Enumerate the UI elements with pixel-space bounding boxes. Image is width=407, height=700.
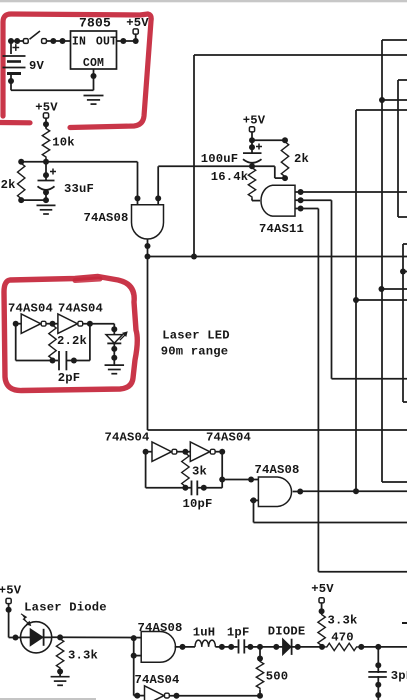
- svg-text:2k: 2k: [1, 178, 16, 192]
- inductor L1 1uH: [195, 640, 215, 647]
- battery B1 9V: [3, 56, 26, 74]
- wire branch up to inv2 out: [89, 324, 91, 361]
- wire to +5V terminal: [135, 34, 137, 41]
- wire battery- return to COM ground: [11, 89, 94, 91]
- wire pin3 to right edge: [318, 571, 407, 573]
- wire +5V down to 100uF: [251, 132, 253, 153]
- 3pF end dot: [375, 692, 381, 698]
- junction 3pF dot: [375, 644, 381, 650]
- red annotation stub bottom-left: [0, 120, 30, 126]
- node dot (+5V/2k): [249, 137, 255, 143]
- wire node A down to AND input1: [137, 162, 139, 205]
- wire node to 33uF: [45, 162, 47, 181]
- junction 3.3k/+5V dot: [319, 644, 325, 650]
- wire through photodiode: [21, 636, 52, 638]
- wire switch to 7805 IN: [47, 40, 71, 42]
- resistor 3k: [182, 452, 189, 488]
- wire inv3 out to inv4 in: [177, 451, 191, 453]
- wire feedback left down (osc2): [145, 452, 147, 488]
- diode D3 cathode bar: [291, 639, 293, 655]
- wire to switch: [11, 40, 24, 42]
- 74AS11 pin3 wire: [295, 208, 301, 210]
- svg-text:1pF: 1pF: [227, 625, 250, 639]
- inverter U4A 74AS04: [21, 314, 41, 334]
- svg-text:COM: COM: [83, 57, 104, 70]
- photodiode triangle: [30, 629, 43, 646]
- svg-text:74AS04: 74AS04: [206, 431, 251, 445]
- resistor 2k (right): [281, 140, 288, 178]
- battery - node dot: [8, 78, 14, 84]
- light arrow into photodiode: [21, 614, 30, 625]
- wire photodiode to AND U7: [52, 636, 142, 638]
- wire box top (y55): [194, 54, 407, 56]
- junction 2.2k/2pF dot: [50, 358, 56, 364]
- AND gate U7 74AS08: [141, 632, 175, 663]
- svg-text:3pF: 3pF: [391, 669, 407, 683]
- wire stub y402: [403, 401, 407, 403]
- AND gate U6 74AS08: [258, 477, 291, 507]
- wire stub y482: [382, 481, 407, 483]
- wire vertical x398: [397, 80, 399, 217]
- wire 2pF to inv2 out branch: [66, 360, 90, 362]
- inverter U8 74AS04 (clipped at bottom): [145, 686, 165, 700]
- svg-text:IN: IN: [72, 36, 86, 49]
- wire U7 input2: [134, 655, 142, 657]
- wire to inverter input: [134, 695, 145, 697]
- ground (3.3k): [51, 676, 70, 678]
- svg-text:Laser Diode: Laser Diode: [24, 601, 107, 615]
- wire inv2 out to LED: [83, 323, 115, 325]
- scan artifact: gray top edge: [0, 0, 407, 2]
- wire output branch to right edge (y430): [148, 429, 407, 431]
- junction 100uF/16.4k dot: [249, 163, 255, 169]
- wire 7805 COM down: [93, 69, 95, 90]
- resistor 3.3k (detector): [318, 613, 325, 647]
- LED ground node dot: [111, 355, 117, 361]
- switch SW1 pole: [23, 39, 28, 44]
- wire jog down: [274, 166, 276, 178]
- ground (7805 COM): [84, 95, 104, 97]
- wire pin2 right: [301, 199, 332, 201]
- inverter U5A 74AS04: [152, 442, 172, 462]
- wire inverter out to 500 bottom: [169, 695, 260, 697]
- svg-text:74AS08: 74AS08: [83, 211, 128, 225]
- laser emission arrow: [120, 332, 127, 340]
- 500 bottom dot: [257, 693, 263, 699]
- wire 1pF to diode: [244, 646, 282, 648]
- wire AND U2 output down long: [147, 239, 149, 430]
- ground (laser LED): [105, 364, 125, 366]
- clipped mark at right edge: [402, 622, 407, 624]
- 2k right top dot: [282, 137, 288, 143]
- wire stub y40: [382, 39, 407, 41]
- 2pF right dot: [71, 358, 77, 364]
- wire branch up to inv4 out: [221, 452, 223, 488]
- junction x403/y271 dot: [400, 269, 406, 275]
- wire stub y80: [398, 79, 407, 81]
- inverter U5B 74AS04: [190, 442, 210, 462]
- AND gate U3 74AS11 (3-input, mirrored): [261, 185, 295, 216]
- AND U6 input1 dot: [248, 477, 254, 483]
- wire to 2k right top: [252, 139, 285, 141]
- voltage regulator U1 7805: [71, 31, 117, 69]
- svg-text:+5V: +5V: [243, 114, 266, 128]
- wire feedback to 2pF: [16, 360, 58, 362]
- junction x356/y300 dot: [353, 297, 359, 303]
- capacitor C6 3pF: [368, 671, 387, 673]
- wire bus output to right edge: [148, 256, 407, 258]
- red annotation circle around oscillator: [4, 277, 137, 391]
- 74AS11 pin1 dot: [298, 189, 304, 195]
- svg-text:74AS04: 74AS04: [8, 302, 53, 316]
- 10pF right dot: [201, 485, 207, 491]
- node A left dot: [18, 159, 24, 165]
- dot before diode: [273, 644, 279, 650]
- junction 3.3k dot: [57, 634, 63, 640]
- resistor 10k: [42, 127, 49, 159]
- 3pF top dot: [375, 662, 381, 668]
- svg-text:3.3k: 3.3k: [68, 649, 98, 663]
- svg-text:90m range: 90m range: [161, 345, 229, 359]
- wire +5V to 10k: [45, 118, 47, 128]
- AND U2 input2 pin dot: [155, 195, 161, 201]
- node A dot under 10k: [43, 159, 49, 165]
- svg-text:OUT: OUT: [96, 36, 117, 49]
- svg-text:33uF: 33uF: [64, 182, 94, 196]
- resistor 2k (left): [18, 162, 25, 200]
- wire U6 input2: [250, 499, 258, 501]
- svg-text:+5V: +5V: [0, 584, 22, 598]
- wire battery+ to switch: [10, 41, 12, 54]
- capacitor C5 1pF: [238, 639, 240, 653]
- inverter U4B 74AS04: [58, 314, 78, 334]
- wire osc2 out to AND U6 input1: [222, 479, 258, 481]
- 74AS11 pin2 wire: [295, 199, 301, 201]
- wire +5V down: [8, 604, 10, 638]
- wire pin2 to right edge: [332, 378, 407, 380]
- wire inv4 out: [215, 451, 222, 453]
- switch SW1 throw: [42, 39, 47, 44]
- U7 output dot: [180, 644, 186, 650]
- wire pin3 right: [301, 208, 319, 210]
- wire stub y271: [403, 271, 407, 273]
- inv4 output dot: [219, 449, 225, 455]
- wire U6 output: [293, 491, 301, 493]
- junction 500 dot: [257, 644, 263, 650]
- diode D3 triangle: [283, 639, 291, 655]
- resistor 3.3k (receiver): [56, 637, 63, 669]
- wire pin2 down: [331, 200, 333, 379]
- 74AS11 pin1 wire: [295, 191, 301, 193]
- svg-text:2pF: 2pF: [58, 371, 81, 385]
- wire jog to 2k bottom: [275, 177, 285, 179]
- wire feedback left down: [15, 324, 17, 361]
- laser LED D1: [106, 335, 123, 344]
- 33uF + sign: [50, 169, 56, 175]
- inv1 input dot: [13, 321, 19, 327]
- 2k right bottom dot: [282, 175, 288, 181]
- junction U6out/x356 dot: [353, 488, 359, 494]
- U6 input2 dot: [251, 497, 257, 503]
- wire 33uF to ground node: [45, 192, 47, 200]
- wire 16.4k to gate tip: [251, 199, 253, 201]
- LED anode dot: [111, 326, 117, 332]
- wire diode to 470: [292, 646, 326, 648]
- svg-text:1uH: 1uH: [193, 625, 216, 639]
- photodiode cathode bar: [43, 629, 45, 646]
- 33uF bottom plate dot: [43, 189, 49, 195]
- AND gate U2 74AS08 (vertical): [132, 205, 164, 239]
- wire pin1 to right edge: [301, 191, 407, 193]
- wire inv1 input: [16, 323, 22, 325]
- svg-text:74AS04: 74AS04: [134, 673, 179, 687]
- wire stub y244: [403, 243, 407, 245]
- svg-text:74AS08: 74AS08: [254, 463, 299, 477]
- 74AS11 pin3 dot: [298, 206, 304, 212]
- junction x382/y100 dot: [379, 97, 385, 103]
- wire stub y217: [398, 216, 407, 218]
- switch blade: [30, 31, 41, 39]
- capacitor C3 2pF: [58, 351, 60, 370]
- wire to photodiode: [9, 637, 21, 639]
- receiver supply dot: [6, 607, 12, 613]
- capacitor C1 33uF (polarized): [38, 180, 55, 182]
- junction osc2 output dot: [219, 477, 225, 483]
- wire 1uH to 1pF: [215, 646, 237, 648]
- svg-text:74AS11: 74AS11: [259, 222, 304, 236]
- inv2 output dot: [87, 321, 93, 327]
- scan artifact: gray bottom-left edge: [0, 698, 96, 700]
- wire inv1 out to inv2 in: [46, 323, 58, 325]
- LED cathode bar: [107, 342, 121, 344]
- svg-text:3.3k: 3.3k: [327, 613, 357, 627]
- 500 top dot: [257, 656, 263, 662]
- COM node dot: [91, 73, 97, 79]
- resistor 500: [256, 660, 263, 690]
- 3pF bottom dot: [375, 682, 381, 688]
- svg-text:DIODE: DIODE: [268, 625, 306, 639]
- ground (33uF/2k): [37, 204, 56, 206]
- svg-text:74AS04: 74AS04: [58, 302, 103, 316]
- wire box left (x194): [193, 55, 195, 257]
- battery + sign: [12, 44, 19, 51]
- wire 470 to right edge: [358, 646, 407, 648]
- U6 output dot: [297, 489, 303, 495]
- wire 100uF node horizontal: [158, 165, 274, 167]
- red annotation circle around power supply: [3, 14, 151, 128]
- wire input2 to right edge: [254, 522, 407, 524]
- capacitor C4 10pF: [191, 481, 193, 496]
- wire battery- down: [10, 74, 12, 91]
- wire inv3 input: [146, 451, 152, 453]
- 74AS11 pin2 dot: [298, 197, 304, 203]
- junction inv1out/2.2k dot: [50, 321, 56, 327]
- 100uF + sign: [256, 144, 262, 150]
- photodiode anode dot: [13, 635, 19, 641]
- AND U2 input1 pin dot: [135, 195, 141, 201]
- dot before 1pF: [228, 644, 234, 650]
- +5V terminal (10k): [43, 113, 48, 118]
- photodiode D2 (laser receiver): [20, 622, 51, 653]
- U7 input2 dot: [131, 653, 137, 659]
- junction inv3out/3k dot: [182, 449, 188, 455]
- wire stub y289: [382, 288, 407, 290]
- capacitor C2 100uF (polarized): [243, 152, 262, 154]
- resistor 470: [325, 643, 358, 650]
- wire AND input2 down: [157, 166, 159, 204]
- svg-text:9V: 9V: [29, 59, 45, 73]
- +5V terminal (receiver): [6, 598, 11, 603]
- svg-text:7805: 7805: [79, 16, 111, 31]
- 3.3k bottom dot: [57, 669, 63, 675]
- resistor 16.4k: [248, 166, 255, 198]
- svg-text:500: 500: [266, 670, 289, 684]
- svg-text:10pF: 10pF: [182, 497, 212, 511]
- wire vertical x382: [381, 40, 383, 482]
- wire stub y110: [356, 109, 407, 111]
- dot below +5V terminal: [43, 121, 49, 127]
- junction box/bus dot: [191, 254, 197, 260]
- wire 7805 OUT to +5V: [117, 40, 139, 42]
- svg-text:+5V: +5V: [311, 582, 334, 596]
- wire input2 down: [253, 500, 255, 522]
- inv3 input dot: [143, 449, 149, 455]
- svg-text:+5V: +5V: [126, 16, 149, 30]
- wire vertical x356: [355, 110, 357, 491]
- wire 2k bottom to ground node: [21, 199, 46, 201]
- wire 10k to node: [45, 159, 47, 162]
- +5V terminal (top): [133, 29, 138, 34]
- inverter output dot: [174, 693, 180, 699]
- inverter input dot: [134, 693, 140, 699]
- svg-text:100uF: 100uF: [201, 152, 239, 166]
- wire input tie-down vertical: [133, 638, 135, 696]
- wire feedback to 10pF: [146, 487, 191, 489]
- wire node A horizontal: [21, 161, 137, 163]
- svg-text:16.4k: 16.4k: [211, 170, 249, 184]
- wire 3pF branch down: [377, 647, 379, 700]
- U7 input1 dot: [131, 635, 137, 641]
- svg-text:Laser LED: Laser LED: [162, 329, 230, 343]
- +5V terminal (detector): [319, 598, 324, 603]
- wire U6 output to right edge: [300, 490, 407, 492]
- wire down to laser LED: [113, 324, 115, 335]
- dot after diode: [295, 644, 301, 650]
- svg-text:2.2k: 2.2k: [57, 334, 87, 348]
- dot after 470: [358, 644, 364, 650]
- resistor 2.2k: [49, 324, 56, 361]
- red annotation overdraw stroke: [75, 279, 100, 281]
- wire stub y100: [382, 99, 407, 101]
- 100uF + dot: [249, 144, 255, 150]
- +5V terminal (100uF): [249, 127, 254, 132]
- wire stub y300: [356, 299, 407, 301]
- wire LED to ground: [113, 343, 115, 365]
- svg-text:74AS04: 74AS04: [104, 431, 149, 445]
- LED cathode dot: [111, 346, 117, 352]
- svg-text:3k: 3k: [192, 465, 207, 479]
- dot after 1pF: [247, 644, 253, 650]
- 33uF + node dot: [43, 172, 49, 178]
- junction output/bus dot: [145, 254, 151, 260]
- AND U2 output pin dot: [145, 243, 151, 249]
- wire vertical x403: [402, 244, 404, 402]
- svg-text:2k: 2k: [294, 152, 309, 166]
- svg-text:470: 470: [331, 631, 354, 645]
- wire 10pF to branch: [197, 487, 222, 489]
- wire pin3 down long: [317, 209, 319, 572]
- junction 3k/10pF dot: [182, 485, 188, 491]
- svg-text:10k: 10k: [52, 136, 75, 150]
- wire U7 output to 1uH: [175, 646, 195, 648]
- dot after 1uH: [219, 644, 225, 650]
- junction x382/y289 dot: [379, 286, 385, 292]
- dot below +5V detector: [319, 608, 325, 614]
